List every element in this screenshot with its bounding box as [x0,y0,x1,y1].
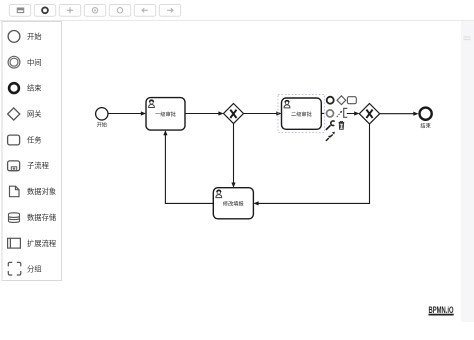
toolbar button undo [134,5,155,17]
svg-text:扩展流程: 扩展流程 [27,239,57,248]
palette item end [9,83,42,93]
gateway2 exclusive [359,104,379,124]
svg-text:开始: 开始 [27,32,42,41]
context pad append intermediate event [327,110,334,117]
palette item start [8,31,42,43]
palette item intermediate [8,56,41,68]
toolbar bottom border [0,20,474,21]
flow task1 to gateway1 [185,111,224,115]
svg-text:修改填报: 修改填报 [223,200,244,208]
toolbar button redo [159,5,180,17]
palette item group [8,262,41,275]
selection outline task2 [278,94,324,132]
svg-text:网关: 网关 [27,110,42,119]
svg-text:一级审批: 一级审批 [155,110,176,118]
flow task3 left-up to task1 [163,130,213,203]
svg-text:结束: 结束 [420,122,430,130]
palette item subprocess [8,161,50,171]
svg-text:数据存储: 数据存储 [27,213,56,222]
palette item participant [8,238,57,248]
svg-text:二级审批: 二级审批 [291,110,312,118]
toolbar button space-tool plus [59,5,80,17]
context pad connect tool [337,112,341,117]
palette item data-object [10,186,57,197]
right properties strip [461,21,474,322]
context pad trash [339,121,345,129]
context pad wrench [326,125,331,130]
task3 修改填报 [213,188,253,219]
svg-text:数据对象: 数据对象 [27,187,56,196]
context pad text annotation [344,108,348,117]
context pad lightning [326,132,335,141]
palette item gateway [8,108,42,120]
gateway1 exclusive [224,104,244,124]
bpmn.io logo [429,305,454,316]
toolbar button zoom-in [84,5,105,17]
flow gateway2 down-left to task3 [253,124,369,206]
flow gateway1 down to task3 [231,124,235,188]
toolbar button open [9,5,30,17]
svg-text:任务: 任务 [27,135,42,144]
palette item data-store [9,213,57,223]
task1 一级审批 [146,98,185,131]
svg-text:中间: 中间 [27,58,42,67]
context pad append task [347,97,356,104]
context pad append gateway [337,96,346,105]
task2 二级审批 [282,98,322,129]
palette panel [2,22,62,281]
svg-text:分组: 分组 [27,265,42,274]
toolbar button zoom-out [109,5,130,17]
svg-text:开始: 开始 [97,120,108,128]
toolbar button lasso (active) [34,5,55,17]
start event [96,108,108,129]
svg-text:子流程: 子流程 [27,161,50,170]
end event [420,108,432,130]
flow task2 to gateway2 [321,111,359,115]
properties strip toggle marks [464,37,471,40]
flow start to task1 [109,111,147,115]
context pad append end event [327,97,334,104]
palette item task [8,135,42,145]
flow gateway1 to task2 [243,111,281,115]
flow gateway2 to end [380,112,419,116]
svg-text:结束: 结束 [27,84,42,93]
